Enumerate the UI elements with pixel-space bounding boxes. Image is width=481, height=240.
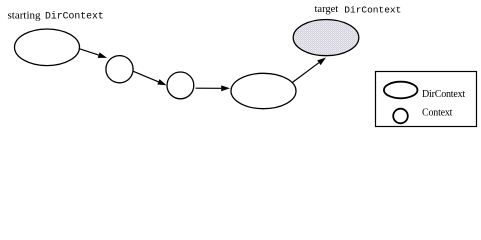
circle: context C2: [167, 72, 194, 99]
wire: arrow 3 (C2 to E3): [196, 85, 231, 91]
wire: arrow 1 (E1 to C1): [80, 49, 107, 58]
wire: arrow 4 (E3 to target ellipse): [292, 58, 326, 83]
svg-text:Context: Context: [422, 107, 453, 118]
svg-text:DirContext: DirContext: [344, 4, 401, 15]
label: starting DirContext: [8, 9, 104, 21]
ellipse: DirContext E3: [231, 73, 296, 108]
legend box: [376, 72, 477, 127]
wire: arrow 2 (C1 to C2): [133, 71, 167, 85]
svg-text:DirContext: DirContext: [45, 11, 104, 22]
ellipse: starting DirContext (E1): [15, 29, 80, 66]
svg-text:starting: starting: [8, 9, 41, 21]
legend circle: Context: [393, 109, 408, 124]
circle: context C1: [106, 56, 133, 83]
ellipse: target DirContext (shaded): [293, 19, 359, 55]
svg-text:DirContext: DirContext: [422, 89, 465, 100]
label: target DirContext: [315, 4, 402, 15]
svg-text:target: target: [315, 4, 339, 15]
legend ellipse: DirContext: [384, 82, 418, 99]
